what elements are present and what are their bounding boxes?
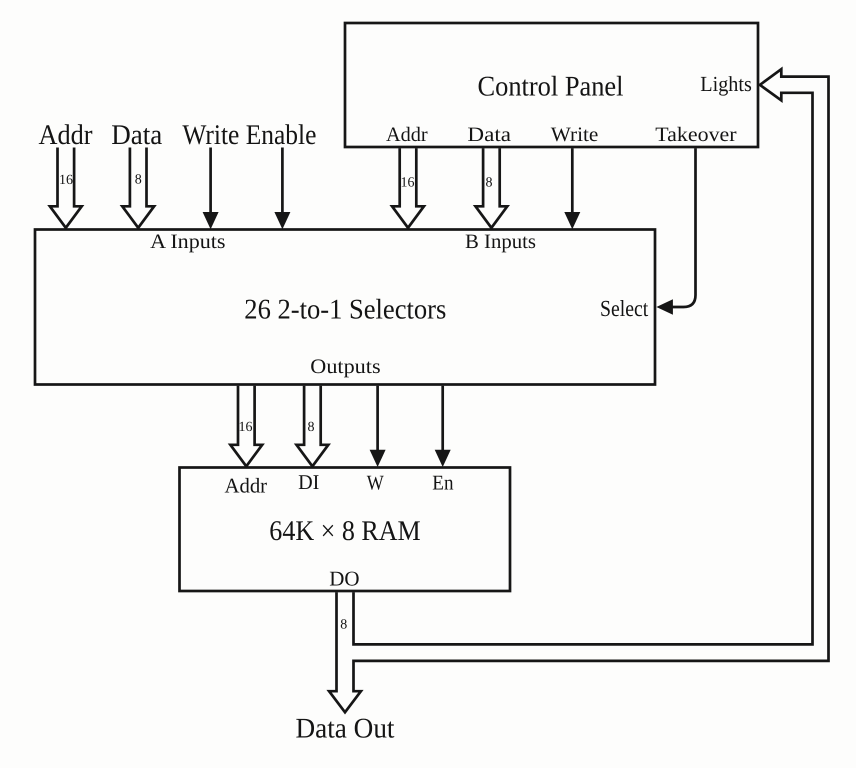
svg-text:26 2-to-1 Selectors: 26 2-to-1 Selectors: [244, 295, 446, 326]
svg-text:16: 16: [401, 176, 415, 191]
svg-text:Data Out: Data Out: [296, 714, 395, 745]
svg-text:8: 8: [135, 173, 142, 188]
svg-text:Outputs: Outputs: [310, 356, 380, 378]
svg-text:64K × 8 RAM: 64K × 8 RAM: [269, 516, 420, 547]
svg-text:Addr: Addr: [386, 124, 428, 146]
bus DI 8 (Selectors Outputs to RAM DI): [297, 386, 329, 467]
svg-text:Lights: Lights: [700, 72, 752, 96]
wire Takeover to Select: [672, 148, 696, 307]
arrowhead W: [370, 450, 386, 467]
svg-text:Write Enable: Write Enable: [182, 120, 316, 151]
svg-text:16: 16: [59, 173, 73, 188]
block 64K x 8 RAM: [180, 468, 511, 592]
svg-text:DO: DO: [329, 567, 359, 591]
svg-text:8: 8: [308, 420, 315, 435]
arrowhead Write Enable: [203, 212, 219, 229]
svg-text:A Inputs: A Inputs: [150, 231, 225, 253]
svg-text:Select: Select: [600, 296, 649, 321]
svg-text:Data: Data: [467, 124, 511, 146]
wire W (Selectors to RAM W): [376, 386, 379, 452]
wire Write Enable arrow (external into A Inputs): [209, 148, 212, 214]
arrowhead En: [435, 450, 451, 467]
bus Addr 16 (external into A Inputs): [50, 148, 82, 228]
svg-text:Write: Write: [551, 124, 599, 146]
arrowhead Select: [656, 299, 673, 315]
svg-text:Control Panel: Control Panel: [478, 72, 624, 103]
svg-text:Addr: Addr: [225, 474, 268, 498]
svg-text:Takeover: Takeover: [655, 124, 736, 146]
bus Addr 16 (Selectors Outputs to RAM Addr): [230, 386, 262, 467]
svg-text:W: W: [367, 471, 384, 495]
svg-text:En: En: [432, 471, 454, 495]
svg-text:8: 8: [486, 176, 493, 191]
block Control Panel: [345, 23, 758, 147]
svg-text:Data: Data: [111, 120, 162, 151]
bus Addr 16 (Control Panel to B Inputs): [392, 148, 424, 228]
svg-text:8: 8: [340, 617, 347, 632]
bus Data 8 (Control Panel to B Inputs): [476, 148, 508, 228]
svg-text:B Inputs: B Inputs: [465, 231, 536, 253]
wire Enable arrow (external into A Inputs): [281, 148, 284, 214]
bus DO 8 feedback loop to Lights and Data Out: [329, 69, 828, 712]
svg-text:DI: DI: [298, 470, 319, 494]
svg-text:Addr: Addr: [39, 120, 93, 151]
bus Data 8 (external into A Inputs): [122, 148, 154, 228]
svg-text:16: 16: [239, 420, 253, 435]
wire En (Selectors to RAM En): [441, 386, 444, 452]
arrowhead Write: [564, 212, 580, 229]
arrowhead Enable: [274, 212, 290, 229]
block 26 2-to-1 Selectors: [35, 230, 655, 385]
wire Write (Control Panel to B Inputs): [571, 148, 574, 213]
